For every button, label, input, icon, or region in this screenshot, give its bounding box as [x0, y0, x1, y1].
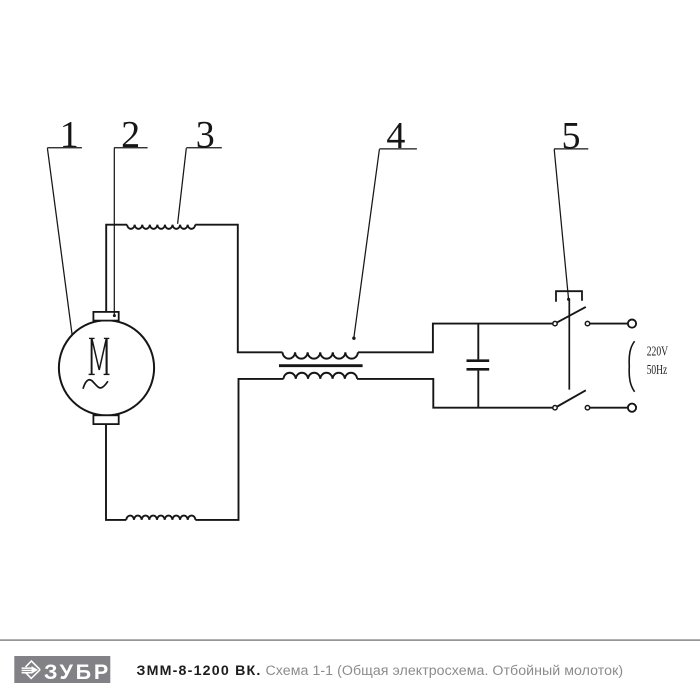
- label 2: [114, 114, 148, 156]
- logo icon diamond: [26, 661, 40, 678]
- terminal bottom: [628, 404, 636, 412]
- footer separator: [0, 639, 700, 641]
- label 1: [47, 114, 82, 335]
- transformer T1 secondary winding: [284, 373, 358, 379]
- transformer core: [279, 364, 363, 367]
- wire motor bottom to bottom coil: [106, 424, 126, 520]
- label 4: [352, 115, 417, 340]
- logo plate: [14, 656, 110, 683]
- svg-text:ЗММ-8-1200 ВК. Схема 1-1 (Обща: ЗММ-8-1200 ВК. Схема 1-1 (Общая электрос…: [137, 663, 624, 679]
- label 3: [178, 114, 222, 224]
- wire transformer secondary to bottom rail: [357, 379, 553, 408]
- svg-text:5: 5: [562, 115, 581, 157]
- svg-text:3: 3: [196, 114, 215, 156]
- label 2 leader: [113, 148, 116, 317]
- wire top coil to transformer primary: [195, 225, 282, 353]
- switch S1 bottom pole: [553, 390, 628, 410]
- brush top: [93, 312, 118, 321]
- wire motor top to top coil: [106, 225, 127, 312]
- brush bottom: [93, 415, 118, 424]
- switch S1 top pole: [553, 307, 628, 326]
- logo icon stripes: [22, 667, 33, 673]
- capacitor C1: [467, 324, 490, 408]
- wire transformer primary to top rail: [358, 324, 553, 353]
- svg-text:2: 2: [121, 114, 140, 156]
- switch actuator bracket: [556, 291, 582, 302]
- wire transformer secondary to bottom coil: [195, 379, 283, 520]
- supply brace: [629, 341, 634, 392]
- svg-text:ЗУБР: ЗУБР: [44, 660, 111, 684]
- label 5: [554, 115, 588, 301]
- svg-text:50Hz: 50Hz: [647, 362, 668, 377]
- transformer T1 primary winding: [283, 352, 358, 358]
- svg-text:4: 4: [386, 115, 405, 157]
- motor tilde: [83, 380, 108, 389]
- inductor L2 stator winding bottom: [126, 516, 195, 520]
- logo icon arrow: [32, 666, 38, 674]
- terminal top: [628, 320, 636, 328]
- inductor L1 stator winding top: [127, 225, 195, 229]
- svg-text:1: 1: [60, 114, 79, 156]
- svg-text:220V: 220V: [647, 344, 669, 359]
- motor letter M: [89, 338, 110, 374]
- motor U1 circle: [59, 320, 154, 415]
- switch linkage: [568, 300, 570, 390]
